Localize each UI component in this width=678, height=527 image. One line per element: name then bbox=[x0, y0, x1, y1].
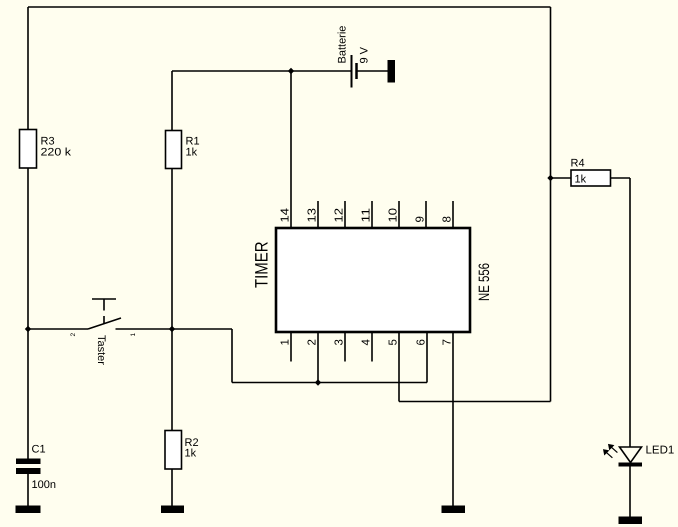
R1 value bbox=[186, 147, 198, 159]
pin 11 number bbox=[361, 208, 373, 223]
wire VCC rail bbox=[172, 70, 351, 72]
svg-text:14: 14 bbox=[280, 207, 292, 222]
svg-text:1k: 1k bbox=[185, 448, 197, 460]
junction node R3/taster bbox=[25, 326, 31, 332]
wire C1 to ground bbox=[27, 474, 29, 507]
pin 4 stub bbox=[371, 332, 373, 362]
junction node R4 bbox=[547, 175, 553, 181]
R3 label bbox=[41, 136, 55, 148]
pin 8 stub bbox=[452, 201, 454, 227]
R2 value bbox=[185, 448, 197, 460]
svg-text:100n: 100n bbox=[32, 479, 56, 491]
LED1 triangle bbox=[620, 447, 642, 463]
junction node R1/R2/taster bbox=[169, 326, 175, 332]
LED1 cathode bar bbox=[619, 463, 643, 467]
svg-text:3: 3 bbox=[334, 339, 346, 345]
pin 11 stub bbox=[371, 201, 373, 227]
battery terminal bar bbox=[388, 60, 396, 83]
pin 14 wire bbox=[290, 71, 292, 227]
pin 12 number bbox=[334, 208, 346, 223]
R4 label bbox=[571, 158, 585, 170]
pin 2 wire bbox=[317, 332, 319, 383]
LED1 arrow 2 bbox=[604, 450, 613, 458]
junction node pin2 bbox=[315, 379, 321, 385]
svg-text:Taster: Taster bbox=[95, 335, 107, 365]
battery plate long bbox=[351, 55, 353, 88]
battery B1 label bbox=[337, 26, 349, 64]
pin 13 stub bbox=[317, 201, 319, 227]
resistor R1 bbox=[166, 131, 182, 169]
svg-text:13: 13 bbox=[307, 208, 319, 223]
svg-text:Batterie: Batterie bbox=[337, 26, 349, 64]
wire R1 top bbox=[171, 71, 173, 131]
pin 9 number bbox=[415, 216, 427, 222]
svg-text:5: 5 bbox=[388, 339, 400, 345]
junction node pin14/VCC bbox=[288, 68, 294, 74]
capacitor C1 plate 1 bbox=[16, 459, 41, 465]
svg-text:12: 12 bbox=[334, 208, 346, 223]
svg-text:6: 6 bbox=[416, 339, 428, 345]
R2 label bbox=[185, 437, 199, 449]
resistor R4 bbox=[571, 170, 611, 186]
wire pin5 out bbox=[399, 401, 551, 403]
capacitor C1 plate 2 bbox=[16, 468, 41, 474]
wire taster left bbox=[28, 328, 88, 330]
wire top border bbox=[28, 6, 551, 8]
C1 label bbox=[32, 444, 46, 456]
resistor R2 bbox=[165, 431, 182, 470]
wire left border bbox=[27, 7, 29, 130]
pin 10 stub bbox=[398, 201, 400, 227]
svg-text:8: 8 bbox=[442, 216, 454, 222]
wire battery plus bbox=[357, 70, 388, 72]
wire R1 to R2 bbox=[171, 168, 173, 431]
pin 3 stub bbox=[344, 332, 346, 362]
pin 3 number bbox=[334, 339, 346, 345]
LED1 label bbox=[646, 445, 675, 457]
switch pin 2 label bbox=[70, 333, 77, 337]
wire R4 left bbox=[551, 177, 572, 179]
pin 8 number bbox=[442, 216, 454, 222]
svg-text:LED1: LED1 bbox=[646, 445, 675, 457]
pin 12 stub bbox=[344, 201, 346, 227]
svg-text:1k: 1k bbox=[575, 174, 587, 186]
svg-text:220 k: 220 k bbox=[41, 147, 72, 159]
svg-text:9: 9 bbox=[415, 216, 427, 222]
IC U1 NE556 body bbox=[276, 228, 470, 332]
wire R3 to C1 bbox=[27, 168, 29, 460]
pin 2 number bbox=[307, 339, 319, 345]
R3 value bbox=[41, 147, 72, 159]
pin 6 number bbox=[416, 339, 428, 345]
ground bar R2 bbox=[161, 506, 184, 514]
pin 7 wire bbox=[452, 332, 454, 506]
wire LED to ground bbox=[629, 466, 631, 517]
C1 value bbox=[32, 479, 56, 491]
switch Taster label bbox=[95, 335, 107, 365]
LED1 arrow 1 bbox=[609, 444, 618, 452]
pin 7 number bbox=[442, 339, 454, 345]
switch actuator cap bbox=[92, 298, 116, 300]
battery value 9V bbox=[359, 46, 371, 63]
pin 5 wire bbox=[398, 332, 400, 402]
wire R4 right bbox=[611, 177, 631, 179]
ground bar C1 bbox=[16, 506, 41, 514]
ground bar pin7 bbox=[442, 506, 466, 514]
wire taster down bbox=[231, 329, 233, 383]
svg-text:2: 2 bbox=[307, 339, 319, 345]
R1 label bbox=[186, 136, 200, 148]
switch pin 1 label bbox=[130, 333, 137, 337]
svg-text:1: 1 bbox=[280, 339, 292, 345]
svg-text:7: 7 bbox=[442, 339, 454, 345]
pin 10 number bbox=[388, 208, 400, 223]
wire taster right bbox=[116, 328, 233, 330]
svg-text:11: 11 bbox=[361, 208, 373, 223]
pin 1 stub bbox=[290, 332, 292, 362]
svg-text:9 V: 9 V bbox=[359, 46, 371, 63]
resistor R3 bbox=[20, 130, 37, 169]
wire R4 to LED bbox=[629, 178, 631, 447]
ground bar LED bbox=[619, 517, 643, 525]
U1 TIMER label bbox=[252, 242, 272, 289]
svg-text:R4: R4 bbox=[571, 158, 585, 170]
pin 5 number bbox=[388, 339, 400, 345]
svg-text:C1: C1 bbox=[32, 444, 46, 456]
pin 4 number bbox=[361, 339, 373, 346]
battery plate short bbox=[355, 63, 358, 79]
R4 value bbox=[575, 174, 587, 186]
pin 1 number bbox=[280, 339, 292, 345]
svg-text:2: 2 bbox=[70, 333, 77, 337]
wire right border bbox=[550, 7, 552, 402]
pin 14 number bbox=[280, 207, 292, 222]
switch S1 blade bbox=[88, 318, 121, 329]
svg-text:1k: 1k bbox=[186, 147, 198, 159]
pin 13 number bbox=[307, 208, 319, 223]
svg-text:1: 1 bbox=[130, 333, 137, 337]
switch actuator stem bbox=[103, 299, 105, 324]
svg-text:10: 10 bbox=[388, 208, 400, 223]
svg-text:TIMER: TIMER bbox=[252, 242, 272, 289]
wire R2 to ground bbox=[171, 469, 173, 507]
U1 NE 556 label bbox=[476, 263, 493, 301]
pin 9 stub bbox=[425, 201, 427, 227]
svg-text:NE 556: NE 556 bbox=[476, 263, 493, 301]
wire trigger bus bbox=[232, 382, 427, 384]
svg-text:4: 4 bbox=[361, 339, 373, 346]
pin 6 wire bbox=[426, 332, 428, 383]
